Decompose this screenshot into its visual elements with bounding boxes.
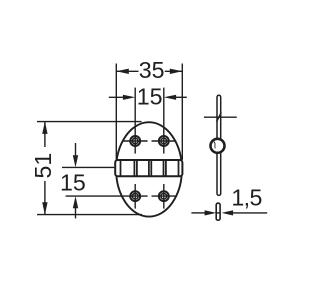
hole upper-left outer circle: [130, 136, 140, 146]
extension line 51 bottom: [37, 214, 142, 216]
svg-text:51: 51: [30, 153, 56, 179]
knuckle seam 5: [178, 160, 180, 176]
side view thickness piece crossing line: [216, 212, 220, 214]
side view plate upper part: [217, 95, 221, 140]
hole lower-right outer circle: [159, 191, 169, 201]
dimension 35 left extension line: [115, 64, 117, 160]
dimension 15 left lower arrowhead: [73, 196, 78, 208]
hole upper-right vertical crosshair + 15 extension line: [163, 88, 165, 154]
knuckle band outline: [115, 160, 182, 176]
svg-text:1,5: 1,5: [231, 185, 261, 211]
knuckle seam 3b: [150, 160, 152, 176]
svg-text:15: 15: [60, 170, 86, 196]
knuckle seam 4b: [165, 160, 167, 176]
dimension 35 right arrowhead: [170, 69, 183, 74]
svg-text:15: 15: [137, 84, 163, 110]
knuckle seam 2a: [133, 160, 135, 176]
extension line lower hole row / crosshair left hole: [66, 195, 148, 197]
hole upper-left crosshair horizontal: [123, 140, 148, 142]
dimension 15 top right arrowhead: [164, 95, 176, 100]
dimension 35 right extension line: [181, 64, 183, 160]
extension line hinge pin axis: [62, 166, 114, 168]
dimension 51 bottom arrowhead: [42, 202, 47, 214]
extension line 51 top: [37, 121, 142, 123]
hole upper-left inner circle: [132, 138, 138, 144]
knuckle seam 4a: [163, 160, 165, 176]
dimension 15 left lower arrow shaft: [75, 207, 77, 219]
hole lower-left outer circle: [130, 191, 140, 201]
side view countersink tick: [217, 112, 222, 121]
dimension 15 top left arrowhead: [123, 95, 135, 100]
front view hinge plate (oval outline): [116, 122, 182, 216]
hole upper-right inner circle: [161, 138, 167, 144]
dimension 15 top right arrow shaft: [174, 96, 187, 98]
side view thickness piece outline: [216, 203, 220, 220]
dimension 15 top left arrow shaft: [109, 96, 125, 98]
dimension 51 line lower segment: [44, 181, 46, 215]
knuckle seam 2b: [136, 160, 138, 176]
hole lower-right crosshair horizontal: [152, 195, 177, 197]
dimension 51 top arrowhead: [42, 122, 47, 134]
dimension 1,5 left arrow shaft: [191, 212, 206, 214]
hole upper-right crosshair horizontal: [152, 140, 177, 142]
knuckle seam 3a: [148, 160, 150, 176]
dimension 15 left upper arrow shaft: [75, 143, 77, 157]
hole upper-right outer circle: [159, 136, 169, 146]
side view barrel circle: [211, 139, 225, 153]
dimension 35 line right segment: [165, 70, 183, 72]
hole lower-right inner circle: [161, 193, 167, 199]
dimension 35 line left segment: [116, 70, 138, 72]
dimension 35 left arrowhead: [116, 69, 129, 74]
hole lower-left vertical crosshair: [134, 184, 136, 209]
side view screw hole centerline: [204, 116, 237, 118]
dimension 1,5 left arrowhead: [205, 210, 217, 215]
svg-text:35: 35: [139, 57, 165, 83]
side view pin mark: [223, 147, 225, 150]
knuckle seam 1: [120, 160, 122, 176]
hole upper-left vertical crosshair + 15 extension line: [134, 88, 136, 154]
dimension 51 line upper segment: [44, 122, 46, 147]
hole lower-left inner circle: [132, 193, 138, 199]
hole lower-right vertical crosshair: [163, 184, 165, 209]
dimension 1,5 right arrow shaft: [232, 212, 267, 214]
dimension 1,5 right arrowhead: [222, 210, 234, 215]
side view plate lower part: [217, 152, 221, 196]
dimension 15 left upper arrowhead: [73, 155, 78, 167]
side view pin squiggle: [214, 142, 216, 149]
